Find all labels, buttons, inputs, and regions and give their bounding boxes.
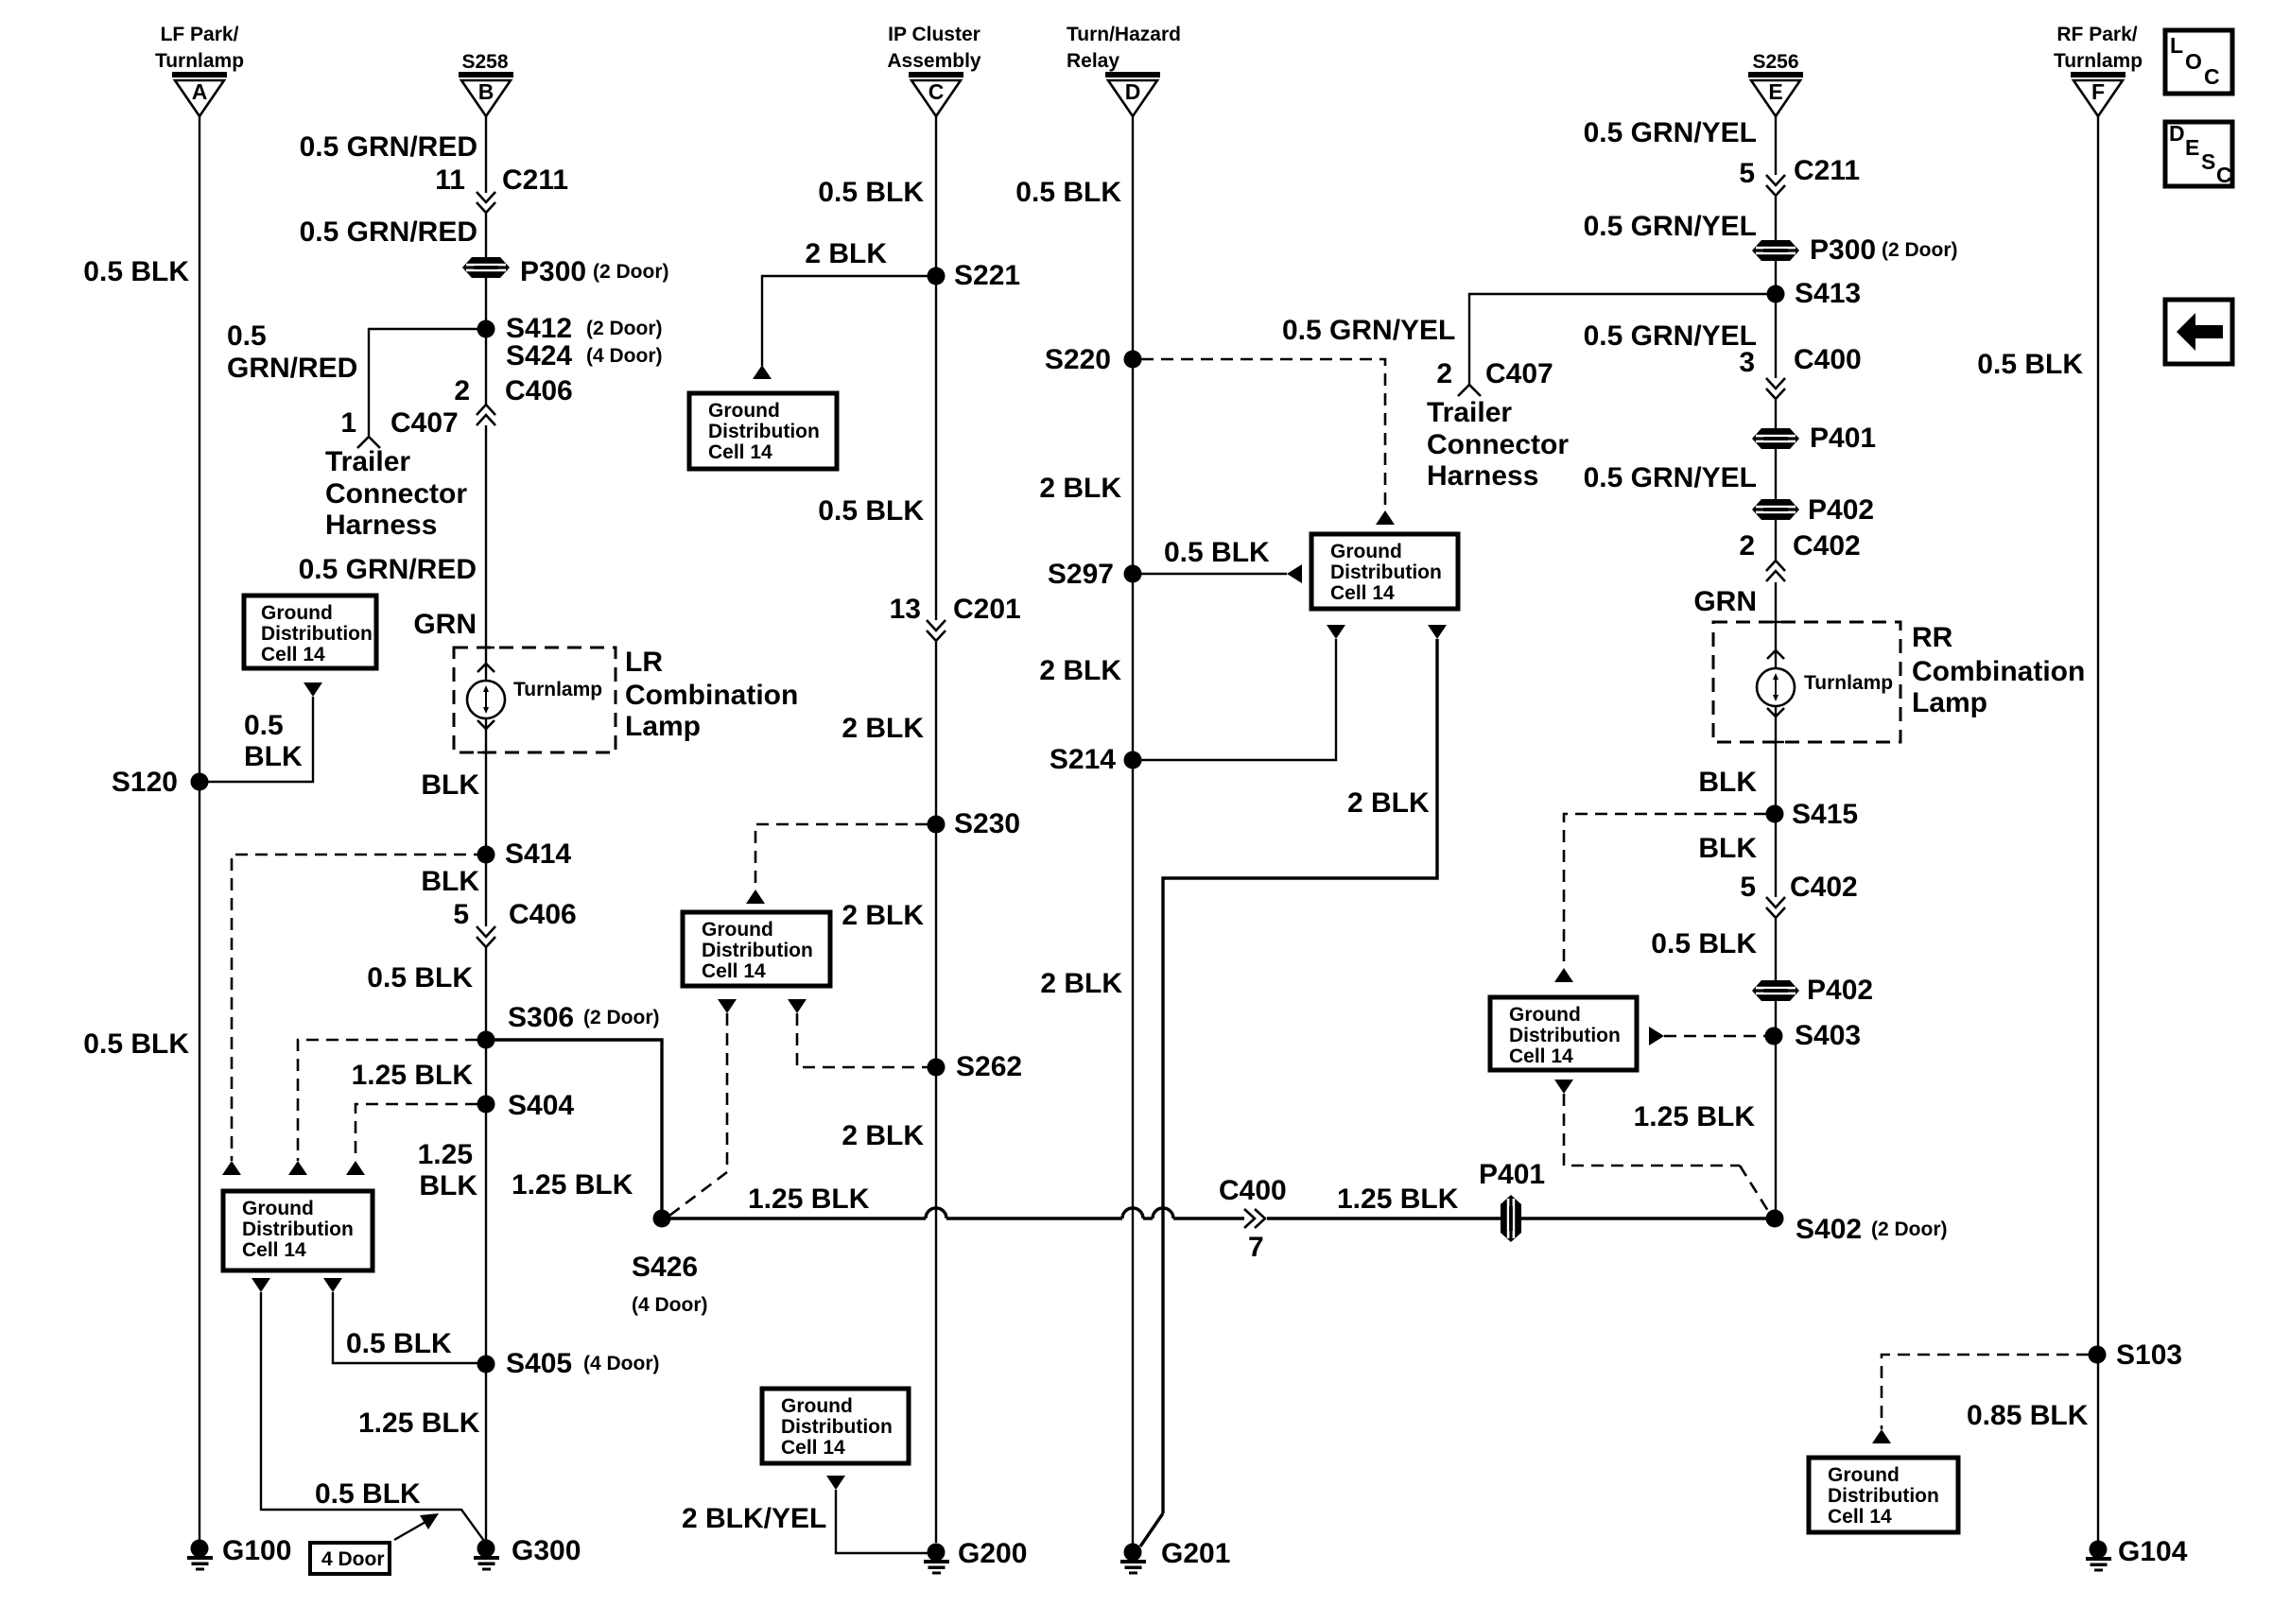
arrow into ground distribution (S221)	[753, 365, 772, 379]
svg-text:BLK: BLK	[421, 769, 479, 801]
svg-text:Cell 14: Cell 14	[261, 644, 325, 665]
svg-text:0.5 BLK: 0.5 BLK	[1015, 177, 1121, 208]
svg-text:IP Cluster: IP Cluster	[888, 24, 980, 45]
svg-text:1.25 BLK: 1.25 BLK	[512, 1169, 633, 1201]
svg-text:Assembly: Assembly	[887, 50, 981, 72]
svg-text:Turn/Hazard: Turn/Hazard	[1067, 24, 1181, 45]
node S405	[477, 1356, 495, 1373]
node S297	[1124, 565, 1142, 583]
svg-text:1.25 BLK: 1.25 BLK	[1634, 1101, 1756, 1132]
svg-text:S214: S214	[1050, 744, 1116, 775]
svg-text:S256: S256	[1752, 51, 1798, 73]
label S424 (4 Door)	[506, 340, 663, 371]
ground distribution box (C middle)	[683, 912, 830, 986]
svg-text:0.5 BLK: 0.5 BLK	[367, 962, 473, 993]
label IP Cluster Assembly	[887, 24, 981, 72]
pass-through grommet P300 (E)	[1752, 240, 1799, 261]
svg-text:(4 Door): (4 Door)	[583, 1353, 660, 1374]
svg-text:0.5 BLK: 0.5 BLK	[818, 177, 924, 208]
svg-text:Distribution: Distribution	[1509, 1025, 1621, 1046]
svg-text:Distribution: Distribution	[708, 421, 820, 442]
svg-text:7: 7	[1248, 1232, 1264, 1263]
ground G104	[2086, 1541, 2111, 1572]
label S402 (2 Door)	[1796, 1214, 1948, 1245]
main ground run S426 to S402 with hops	[662, 1208, 1766, 1218]
svg-text:S103: S103	[2116, 1339, 2182, 1371]
ground G300	[474, 1540, 499, 1571]
svg-text:E: E	[1768, 79, 1782, 104]
svg-text:5: 5	[1739, 158, 1755, 189]
node S230	[928, 816, 946, 834]
svg-text:(2 Door): (2 Door)	[586, 318, 663, 339]
svg-text:0.5 GRN/RED: 0.5 GRN/RED	[300, 216, 477, 248]
pass-through grommet P401 (main run)	[1501, 1195, 1521, 1242]
svg-text:Connector: Connector	[325, 478, 467, 510]
connector C211 chevrons (E)	[1766, 175, 1785, 196]
svg-text:Connector: Connector	[1427, 429, 1569, 460]
dashed wire S414 to ground distribution	[232, 855, 486, 1161]
wire C vertical segments	[935, 116, 937, 620]
RR lamp terminal chevron bottom	[1767, 708, 1784, 717]
arrow from ground distribution to S405 wire	[323, 1278, 342, 1292]
svg-text:LR: LR	[625, 647, 663, 678]
dashed wire S230 to ground distribution	[755, 824, 928, 890]
arrow from ground distribution to S402	[1554, 1080, 1573, 1094]
svg-text:G200: G200	[958, 1538, 1027, 1569]
svg-text:Distribution: Distribution	[1330, 561, 1442, 583]
svg-text:BLK: BLK	[419, 1170, 477, 1201]
connector triangle D (Turn/Hazard Relay)	[1105, 72, 1160, 116]
svg-text:Ground: Ground	[1828, 1464, 1900, 1486]
node S306	[477, 1031, 495, 1049]
ground distribution box (S120)	[244, 596, 376, 668]
svg-text:Cell 14: Cell 14	[242, 1239, 306, 1261]
svg-text:S262: S262	[956, 1051, 1022, 1082]
wire A vertical	[199, 116, 200, 1543]
ground G200	[924, 1544, 949, 1575]
arrow into ground distribution (S297)	[1287, 564, 1302, 583]
connector C201 chevrons	[927, 620, 946, 641]
svg-text:2 BLK: 2 BLK	[842, 1120, 924, 1151]
svg-text:Trailer: Trailer	[1427, 397, 1512, 428]
svg-text:Cell 14: Cell 14	[1509, 1045, 1573, 1067]
svg-text:1: 1	[340, 407, 356, 439]
svg-text:Distribution: Distribution	[702, 940, 813, 961]
svg-text:(4 Door): (4 Door)	[586, 345, 663, 367]
label S306 (2 Door)	[508, 1002, 660, 1033]
svg-text:Distribution: Distribution	[261, 623, 373, 645]
svg-text:0.5 GRN/YEL: 0.5 GRN/YEL	[1282, 315, 1455, 346]
svg-text:0.85 BLK: 0.85 BLK	[1967, 1400, 2089, 1431]
svg-text:C: C	[2204, 64, 2220, 89]
wire 2 BLK from ground distribution to G201	[1140, 639, 1437, 1546]
dashed wire S103 to ground distribution	[1882, 1355, 2089, 1429]
wire ground distribution to G200	[836, 1490, 928, 1553]
svg-text:S220: S220	[1045, 344, 1111, 375]
svg-text:BLK: BLK	[1698, 833, 1757, 864]
svg-text:S414: S414	[505, 838, 571, 870]
svg-text:Ground: Ground	[1509, 1004, 1581, 1026]
svg-text:RR: RR	[1912, 622, 1953, 653]
arrow into ground distribution (S220)	[1376, 510, 1395, 525]
pass-through grommet P402 (E lower)	[1752, 980, 1799, 1001]
svg-text:2 BLK: 2 BLK	[1039, 473, 1121, 504]
svg-text:0.5 GRN/YEL: 0.5 GRN/YEL	[1584, 462, 1757, 493]
svg-text:C: C	[2216, 163, 2232, 187]
wire S412 branch to C407	[369, 329, 486, 436]
svg-text:5: 5	[1740, 872, 1756, 903]
svg-text:C400: C400	[1794, 344, 1862, 375]
connector triangle E (S256)	[1748, 72, 1803, 116]
LR lamp box edge ticks	[477, 648, 495, 752]
label S426 (4 Door)	[632, 1252, 708, 1316]
svg-text:13: 13	[890, 594, 921, 625]
arrow into ground distribution (S214)	[1327, 625, 1345, 639]
wire S214 to ground distribution	[1133, 639, 1336, 760]
wire F vertical	[2097, 116, 2099, 1543]
svg-text:LF Park/: LF Park/	[161, 24, 239, 45]
svg-text:Ground: Ground	[1330, 541, 1402, 562]
node S221	[928, 268, 946, 285]
svg-text:0.5 BLK: 0.5 BLK	[1651, 928, 1757, 959]
svg-text:GRN/RED: GRN/RED	[227, 353, 357, 384]
ground G201	[1120, 1544, 1146, 1575]
svg-text:S403: S403	[1795, 1020, 1861, 1051]
svg-text:2 BLK: 2 BLK	[842, 713, 924, 744]
4 Door annotation arrow	[394, 1513, 439, 1540]
svg-text:S221: S221	[954, 260, 1020, 291]
connector C400 chevrons	[1766, 378, 1785, 399]
svg-text:(2 Door): (2 Door)	[1871, 1218, 1948, 1240]
RR lamp terminal chevron top	[1767, 650, 1784, 659]
arrow from ground distribution to G200	[826, 1476, 845, 1490]
svg-text:BLK: BLK	[421, 866, 479, 897]
svg-text:0.5 BLK: 0.5 BLK	[1164, 537, 1270, 568]
label S412 (2 Door)	[506, 313, 663, 344]
pass-through grommet P401 (E)	[1752, 428, 1799, 449]
dashed wire S306 to ground distribution	[298, 1040, 477, 1161]
svg-text:S120: S120	[112, 767, 178, 798]
svg-text:P402: P402	[1808, 494, 1874, 526]
node S103	[2089, 1346, 2107, 1364]
svg-text:Ground: Ground	[242, 1198, 314, 1219]
svg-text:Distribution: Distribution	[781, 1416, 893, 1438]
label RF Park/Turnlamp	[2054, 24, 2143, 72]
svg-text:Distribution: Distribution	[242, 1218, 354, 1240]
svg-text:Cell 14: Cell 14	[1828, 1506, 1892, 1528]
svg-text:Harness: Harness	[1427, 460, 1538, 492]
label 1.25 BLK (B bottom)	[418, 1139, 478, 1201]
label Trailer Connector Harness (E)	[1427, 397, 1569, 492]
wire S120 branch	[200, 697, 313, 782]
svg-text:0.5 GRN/YEL: 0.5 GRN/YEL	[1584, 211, 1757, 242]
svg-text:P300: P300	[520, 256, 586, 287]
svg-text:1.25: 1.25	[418, 1139, 473, 1170]
dashed wire ground distribution to S426	[669, 1013, 727, 1216]
wire ground distribution to G300	[261, 1292, 484, 1541]
svg-text:Lamp: Lamp	[625, 711, 701, 742]
node S402	[1766, 1210, 1784, 1228]
svg-text:F: F	[2091, 79, 2105, 104]
svg-text:0.5 GRN/YEL: 0.5 GRN/YEL	[1584, 117, 1757, 148]
svg-text:O: O	[2185, 49, 2202, 74]
wire S306 to S426 (thick)	[486, 1040, 662, 1218]
dashed wire ground distribution to S262	[797, 1013, 928, 1067]
pass-through grommet P300 (B)	[462, 257, 510, 278]
svg-text:C406: C406	[505, 375, 573, 406]
wire B vertical segments	[485, 116, 487, 193]
ground G100	[187, 1540, 213, 1571]
label P300 (2 Door)	[520, 256, 669, 287]
svg-text:(2 Door): (2 Door)	[1882, 239, 1958, 261]
svg-text:Turnlamp: Turnlamp	[1804, 672, 1893, 694]
svg-text:P300: P300	[1810, 234, 1876, 266]
svg-text:RF Park/: RF Park/	[2056, 24, 2137, 45]
svg-text:2 BLK: 2 BLK	[1039, 655, 1121, 686]
label 0.5 BLK (S120 branch)	[244, 710, 303, 772]
wire S297 to ground distribution	[1133, 573, 1287, 575]
svg-text:2 BLK: 2 BLK	[1040, 968, 1122, 999]
svg-text:S405: S405	[506, 1348, 572, 1379]
connector triangle C (IP Cluster Assembly)	[909, 72, 963, 116]
svg-text:4 Door: 4 Door	[321, 1548, 385, 1570]
svg-text:S230: S230	[954, 808, 1020, 839]
RR lamp dashed box	[1713, 622, 1900, 742]
svg-text:Turnlamp: Turnlamp	[2054, 50, 2143, 72]
svg-text:Cell 14: Cell 14	[708, 441, 772, 463]
svg-text:2: 2	[454, 375, 470, 406]
svg-text:Lamp: Lamp	[1912, 687, 1987, 718]
svg-text:S404: S404	[508, 1090, 574, 1121]
dashed wire S220 to ground distribution	[1141, 359, 1385, 510]
ground distribution box (S221)	[689, 393, 837, 469]
dashed wire S415 to ground distribution	[1564, 814, 1766, 968]
svg-text:(2 Door): (2 Door)	[583, 1007, 660, 1028]
svg-text:P401: P401	[1810, 423, 1876, 454]
svg-text:1.25 BLK: 1.25 BLK	[748, 1183, 870, 1215]
node S403	[1765, 1028, 1783, 1045]
svg-text:Ground: Ground	[781, 1395, 853, 1417]
svg-text:3: 3	[1739, 347, 1755, 378]
node S415	[1766, 805, 1784, 823]
ground distribution box (G200)	[762, 1389, 909, 1463]
arrow into ground distribution (S414)	[222, 1161, 241, 1175]
DESC legend box	[2165, 121, 2232, 187]
arrow into ground distribution (S306)	[288, 1161, 307, 1175]
svg-text:0.5 BLK: 0.5 BLK	[83, 256, 189, 287]
node S120	[191, 773, 209, 791]
arrow from ground distribution to S262	[788, 999, 807, 1013]
arrow into ground distribution (S103)	[1872, 1429, 1891, 1443]
svg-text:Cell 14: Cell 14	[781, 1437, 845, 1459]
label Turn/Hazard Relay	[1067, 24, 1181, 72]
svg-text:Harness: Harness	[325, 510, 437, 541]
connector C211 chevrons (B)	[477, 192, 495, 213]
connector C406 chevrons (B lower)	[477, 926, 495, 947]
arrow from ground distribution to G300 wire	[252, 1278, 270, 1292]
pass-through grommet P402 (E)	[1752, 499, 1799, 520]
arrow from ground distribution (2 BLK to G201)	[1428, 625, 1447, 639]
label RR Combination Lamp	[1912, 622, 2085, 718]
svg-text:Combination: Combination	[1912, 656, 2085, 687]
svg-text:0.5 BLK: 0.5 BLK	[83, 1028, 189, 1060]
arrow into ground distribution (S415)	[1554, 968, 1573, 982]
svg-text:2 BLK/YEL: 2 BLK/YEL	[682, 1503, 826, 1534]
svg-text:S424: S424	[506, 340, 572, 371]
wire D vertical	[1132, 116, 1134, 1546]
svg-text:S426: S426	[632, 1252, 698, 1283]
svg-text:0.5 GRN/RED: 0.5 GRN/RED	[300, 131, 477, 163]
svg-text:GRN: GRN	[1693, 586, 1757, 617]
svg-text:B: B	[478, 79, 495, 104]
svg-text:D: D	[2169, 121, 2185, 146]
svg-text:C211: C211	[1794, 155, 1860, 186]
wire ground distribution to S405	[333, 1292, 486, 1363]
wire S221 branch to ground distribution	[762, 276, 936, 366]
RR lamp box edge ticks	[1767, 622, 1784, 742]
svg-text:S258: S258	[461, 51, 508, 73]
svg-text:S306: S306	[508, 1002, 574, 1033]
svg-text:G100: G100	[222, 1535, 291, 1566]
dashed wire ground distribution to S403	[1664, 1035, 1765, 1038]
connector C400 chevrons (main run)	[1244, 1209, 1265, 1228]
svg-text:S402: S402	[1796, 1214, 1862, 1245]
dashed wire S404 to ground distribution	[356, 1104, 477, 1161]
svg-text:1.25 BLK: 1.25 BLK	[1337, 1183, 1459, 1215]
svg-text:0.5 BLK: 0.5 BLK	[346, 1328, 452, 1359]
svg-text:C407: C407	[1485, 358, 1553, 389]
svg-text:C406: C406	[509, 899, 577, 930]
node S414	[477, 846, 495, 864]
connector triangle A (LF Park/Turnlamp)	[172, 72, 227, 116]
svg-text:0.5: 0.5	[227, 320, 267, 352]
arrow into ground distribution (S120)	[304, 682, 322, 697]
svg-text:D: D	[1125, 79, 1141, 104]
svg-text:C: C	[928, 79, 945, 104]
svg-text:G104: G104	[2118, 1536, 2188, 1567]
svg-text:11: 11	[435, 164, 465, 196]
svg-text:Combination: Combination	[625, 680, 798, 711]
svg-text:0.5 GRN/YEL: 0.5 GRN/YEL	[1584, 320, 1757, 352]
svg-text:P401: P401	[1479, 1159, 1545, 1190]
svg-text:0.5 BLK: 0.5 BLK	[315, 1478, 421, 1510]
connector triangle B (S258)	[459, 72, 513, 116]
svg-text:BLK: BLK	[244, 741, 303, 772]
svg-text:C407: C407	[390, 407, 459, 439]
ground distribution box (left bottom)	[223, 1191, 373, 1270]
label LR Combination Lamp	[625, 647, 798, 742]
connector triangle F (RF Park/Turnlamp)	[2071, 72, 2126, 116]
svg-text:E: E	[2185, 135, 2199, 160]
svg-text:Relay: Relay	[1067, 50, 1119, 72]
label S405 (4 Door)	[506, 1348, 660, 1379]
svg-text:C400: C400	[1219, 1175, 1287, 1206]
svg-text:Ground: Ground	[261, 602, 333, 624]
LR lamp terminal chevron top	[477, 664, 495, 672]
label P300 (2 Door) (E)	[1810, 234, 1958, 266]
ground distribution box (D)	[1311, 534, 1458, 609]
svg-text:S415: S415	[1792, 799, 1858, 830]
svg-text:2: 2	[1739, 530, 1755, 561]
arrow into ground distribution (S230)	[746, 890, 765, 904]
svg-text:0.5: 0.5	[244, 710, 284, 741]
svg-text:Cell 14: Cell 14	[702, 960, 766, 982]
node S413	[1767, 285, 1785, 303]
svg-text:1.25 BLK: 1.25 BLK	[352, 1060, 474, 1091]
svg-text:S413: S413	[1795, 278, 1861, 309]
svg-text:Ground: Ground	[702, 919, 773, 941]
svg-text:0.5 BLK: 0.5 BLK	[1977, 349, 2083, 380]
label Trailer Connector Harness (B)	[325, 446, 467, 541]
connector C406 chevrons (B)	[477, 405, 495, 425]
svg-text:5: 5	[453, 899, 469, 930]
label 0.5 GRN/RED (branch)	[227, 320, 357, 384]
connector C407 chevron (E)	[1458, 385, 1481, 396]
svg-text:Cell 14: Cell 14	[1330, 582, 1395, 604]
connector C407 chevron (B branch)	[357, 437, 380, 448]
LR lamp dashed box	[454, 648, 616, 752]
svg-text:S297: S297	[1048, 559, 1114, 590]
node S412	[477, 320, 495, 338]
svg-text:Ground: Ground	[708, 400, 780, 422]
RR turnlamp bulb	[1757, 668, 1795, 706]
svg-text:2 BLK: 2 BLK	[805, 238, 887, 269]
ground distribution box (S103)	[1809, 1458, 1958, 1532]
svg-text:C211: C211	[502, 164, 568, 196]
svg-text:(2 Door): (2 Door)	[593, 261, 669, 283]
svg-text:Turnlamp: Turnlamp	[513, 679, 602, 700]
left-arrow legend box	[2165, 300, 2232, 364]
svg-text:2: 2	[1436, 358, 1452, 389]
svg-text:S: S	[2201, 149, 2215, 174]
wire E vertical segments	[1775, 116, 1777, 175]
svg-text:G201: G201	[1161, 1538, 1230, 1569]
LR turnlamp bulb	[467, 681, 505, 718]
svg-text:1.25 BLK: 1.25 BLK	[358, 1408, 480, 1439]
svg-text:Turnlamp: Turnlamp	[155, 50, 244, 72]
svg-text:L: L	[2170, 33, 2183, 58]
svg-text:A: A	[192, 79, 208, 104]
connector C402 chevrons (E upper, up)	[1766, 561, 1785, 581]
svg-text:Distribution: Distribution	[1828, 1485, 1939, 1507]
svg-text:GRN: GRN	[413, 609, 477, 640]
svg-text:0.5 GRN/RED: 0.5 GRN/RED	[299, 554, 477, 585]
svg-text:2 BLK: 2 BLK	[1347, 787, 1430, 819]
svg-text:P402: P402	[1807, 975, 1873, 1006]
svg-text:(4 Door): (4 Door)	[632, 1294, 708, 1316]
arrow into ground distribution (S404)	[346, 1161, 365, 1175]
svg-text:C201: C201	[953, 594, 1021, 625]
svg-text:C402: C402	[1793, 530, 1861, 561]
ground distribution box (E)	[1490, 997, 1637, 1070]
arrow from ground distribution to S403	[1649, 1027, 1664, 1045]
LR lamp terminal chevron bottom	[477, 720, 495, 729]
node S426	[653, 1210, 671, 1228]
4 Door annotation box	[310, 1543, 390, 1574]
LOC legend box	[2165, 30, 2232, 94]
svg-text:BLK: BLK	[1698, 767, 1757, 798]
node S214	[1124, 752, 1142, 769]
svg-text:0.5 BLK: 0.5 BLK	[818, 495, 924, 527]
svg-text:G300: G300	[512, 1535, 581, 1566]
node S404	[477, 1096, 495, 1114]
label LF Park/Turnlamp	[155, 24, 244, 72]
arrow from ground distribution to S426	[718, 999, 737, 1013]
connector C402 chevrons (E lower)	[1766, 897, 1785, 918]
svg-text:2 BLK: 2 BLK	[842, 900, 924, 931]
node S220	[1124, 351, 1142, 369]
svg-text:C402: C402	[1790, 872, 1858, 903]
